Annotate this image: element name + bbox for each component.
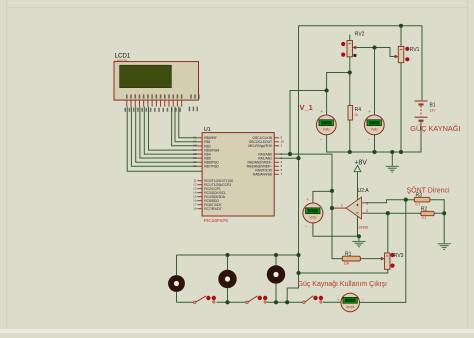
svg-text:RV2: RV2 — [355, 32, 365, 38]
svg-text:MCLR/Vpp/THV: MCLR/Vpp/THV — [248, 144, 272, 148]
svg-text:+: + — [337, 297, 340, 302]
svg-text:18: 18 — [193, 207, 197, 211]
svg-text:RV1: RV1 — [410, 47, 420, 53]
svg-text:7: 7 — [281, 172, 283, 176]
svg-text:ŞÖNT Direnci: ŞÖNT Direnci — [407, 187, 450, 195]
svg-text:LM358: LM358 — [358, 226, 368, 230]
svg-text:Amps: Amps — [346, 305, 355, 309]
svg-text:RC7/RX/DT: RC7/RX/DT — [204, 207, 221, 211]
svg-text:R2: R2 — [421, 206, 428, 212]
svg-text:-: - — [320, 137, 322, 143]
svg-text:RV3: RV3 — [394, 253, 404, 259]
svg-text:-: - — [306, 224, 308, 230]
svg-text:PIC16F876: PIC16F876 — [204, 218, 229, 224]
svg-text:Volts: Volts — [371, 127, 378, 131]
svg-text:+: + — [320, 109, 323, 114]
svg-text:0.1: 0.1 — [416, 203, 421, 207]
svg-text:10k: 10k — [344, 262, 350, 266]
svg-text:Volts: Volts — [309, 215, 316, 219]
svg-text:-: - — [368, 137, 370, 143]
svg-text:1: 1 — [281, 144, 283, 148]
svg-text:-: - — [362, 297, 364, 303]
svg-text:Volts: Volts — [323, 127, 330, 131]
svg-text:GÜÇ KAYNAĞI: GÜÇ KAYNAĞI — [410, 124, 460, 133]
svg-text:28: 28 — [193, 164, 197, 168]
svg-text:+: + — [368, 109, 371, 114]
svg-text:Güç Kaynağı Kullanım Çıkışı: Güç Kaynağı Kullanım Çıkışı — [298, 281, 388, 288]
svg-text:U2:A: U2:A — [358, 188, 370, 194]
svg-text:2k: 2k — [355, 113, 359, 117]
svg-text:V_1: V_1 — [300, 103, 313, 112]
svg-text:RA5/AN4/SS: RA5/AN4/SS — [253, 173, 273, 177]
svg-text:2: 2 — [366, 209, 368, 213]
svg-text:R1: R1 — [345, 251, 352, 257]
svg-text:0.1: 0.1 — [422, 216, 427, 220]
svg-text:RB7/PGD: RB7/PGD — [204, 165, 219, 169]
svg-text:+8V: +8V — [354, 159, 367, 166]
svg-text:12V: 12V — [430, 109, 437, 113]
svg-text:1: 1 — [341, 203, 343, 207]
svg-text:+: + — [306, 197, 309, 202]
